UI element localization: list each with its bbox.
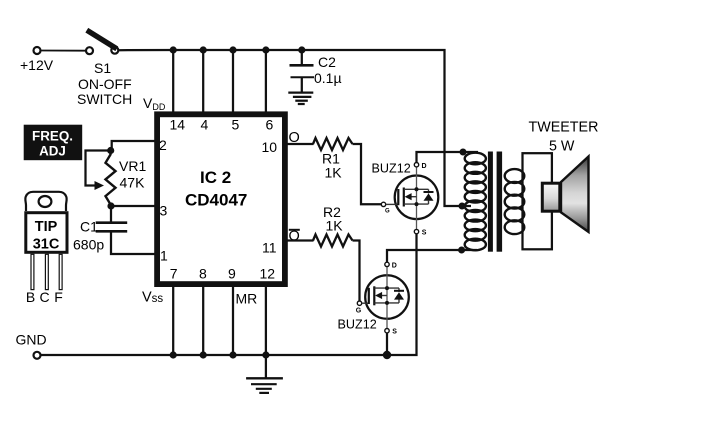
wire pin14: [172, 50, 174, 116]
wire pin2: [112, 141, 155, 150]
node pin4 rail junction: [200, 46, 207, 53]
node transformer center tap: [459, 203, 466, 210]
svg-text:2: 2: [159, 137, 167, 153]
wire pin5: [232, 50, 234, 116]
svg-text:FREQ.: FREQ.: [32, 129, 73, 144]
svg-text:VR1: VR1: [119, 158, 146, 174]
transistor Q2 BUZ12 (bottom MOSFET): [338, 262, 409, 335]
terminal +12V: [20, 47, 54, 73]
svg-text:ON-OFF: ON-OFF: [78, 76, 132, 92]
ground (main): [246, 378, 283, 393]
node pin5 rail junction: [229, 46, 236, 53]
svg-text:+12V: +12V: [20, 57, 54, 73]
svg-text:BUZ12: BUZ12: [372, 162, 411, 176]
svg-text:S: S: [392, 329, 397, 336]
svg-text:SWITCH: SWITCH: [77, 91, 132, 107]
svg-text:4: 4: [201, 117, 209, 133]
transformer T1 primary: [465, 153, 486, 251]
wire pin8: [202, 285, 204, 355]
speaker tweeter cone: [561, 157, 589, 232]
svg-text:GND: GND: [16, 332, 47, 348]
node transformer bottom tap: [458, 247, 465, 254]
svg-text:D: D: [392, 263, 397, 270]
svg-text:11: 11: [262, 240, 277, 256]
terminal GND: [16, 332, 47, 359]
svg-text:1: 1: [160, 248, 168, 264]
svg-text:C2: C2: [318, 54, 336, 70]
svg-text:CD4047: CD4047: [185, 191, 247, 210]
switch S1: [77, 30, 132, 107]
svg-text:5 W: 5 W: [549, 139, 575, 155]
node C2 rail junction: [298, 46, 305, 53]
ground (C2): [288, 93, 313, 104]
transformer T1 core: [488, 152, 502, 252]
svg-text:TWEETER: TWEETER: [529, 120, 599, 136]
svg-text:C1: C1: [80, 219, 98, 235]
svg-text:C: C: [39, 289, 49, 305]
resistor R2 1K: [313, 204, 353, 247]
svg-text:O: O: [289, 229, 300, 245]
wire pin4: [202, 50, 204, 116]
wire pin10 to R1: [287, 143, 314, 145]
svg-text:12: 12: [260, 266, 276, 282]
node pin8 rail junction: [200, 351, 207, 358]
resistor R1 1K: [313, 138, 353, 181]
node pin12 rail junction: [262, 351, 269, 358]
svg-text:680p: 680p: [73, 237, 104, 253]
node transformer top tap: [460, 149, 467, 156]
wire pin3: [111, 205, 155, 207]
wire Q1 source to ground rail: [40, 234, 416, 355]
wire pin7: [172, 285, 174, 355]
svg-text:MR: MR: [236, 291, 258, 307]
wire Q1 drain to transformer: [417, 152, 479, 163]
svg-text:F: F: [54, 289, 63, 305]
wire pin11 to R2: [287, 239, 314, 241]
svg-text:7: 7: [170, 266, 178, 282]
node Q2 source rail junction: [383, 351, 391, 359]
svg-text:8: 8: [199, 266, 207, 282]
wire Q2 source to rail: [386, 333, 388, 355]
svg-text:3: 3: [160, 203, 168, 219]
speaker tweeter driver: [542, 183, 560, 211]
transformer T1 secondary: [505, 169, 525, 234]
wire +12V to switch: [40, 50, 86, 52]
svg-text:47K: 47K: [120, 175, 146, 191]
wire Q2 drain to transformer: [387, 250, 477, 262]
wire top rail: [118, 50, 463, 206]
svg-text:9: 9: [228, 266, 236, 282]
capacitor C2: [290, 50, 342, 92]
wire pin12: [265, 285, 267, 355]
svg-text:B: B: [26, 289, 35, 305]
capacitor C1 680p: [73, 206, 127, 253]
wire center tap stub: [462, 205, 471, 207]
node VR1 bottom: [107, 202, 114, 209]
svg-text:G: G: [356, 308, 362, 315]
svg-text:5: 5: [232, 117, 240, 133]
wire pin6: [265, 50, 267, 116]
node pin6 rail junction: [262, 46, 269, 53]
svg-text:1K: 1K: [325, 165, 343, 181]
svg-text:BUZ12: BUZ12: [338, 318, 377, 332]
svg-text:TIP: TIP: [35, 219, 58, 235]
svg-text:G: G: [385, 209, 390, 215]
wire ground stub: [265, 355, 267, 378]
svg-text:6: 6: [266, 117, 274, 133]
svg-text:IC 2: IC 2: [200, 168, 231, 187]
svg-text:31C: 31C: [33, 237, 60, 253]
svg-text:ADJ: ADJ: [39, 144, 66, 159]
potentiometer VR1 47K: [86, 151, 147, 207]
wire pin9: [232, 285, 234, 355]
wire pin1: [111, 233, 155, 255]
label FREQ ADJ: [24, 125, 82, 161]
transistor package TIP31C: [25, 192, 67, 305]
svg-text:0.1µ: 0.1µ: [314, 70, 342, 86]
transistor Q1 BUZ12 (top MOSFET): [372, 162, 439, 237]
node pin14 rail junction: [170, 46, 177, 53]
svg-text:14: 14: [170, 117, 186, 133]
node pin9 rail junction: [229, 351, 236, 358]
IC IC2 CD4047: [157, 114, 285, 284]
svg-text:D: D: [422, 163, 427, 170]
svg-text:1K: 1K: [326, 218, 344, 234]
label O-bar (pin11 output): [289, 229, 300, 245]
node VR1 top: [107, 147, 114, 154]
wire R1 to Q1 gate: [353, 144, 382, 204]
node pin7 rail junction: [170, 351, 177, 358]
wire secondary to tweeter: [523, 153, 552, 249]
svg-text:S1: S1: [94, 60, 111, 76]
svg-text:10: 10: [262, 139, 278, 155]
wire R2 to Q2 gate: [353, 241, 360, 302]
svg-text:S: S: [422, 230, 427, 237]
